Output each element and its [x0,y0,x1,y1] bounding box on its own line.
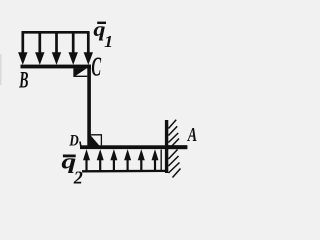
svg-text:A: A [187,124,197,146]
svg-text:1: 1 [104,31,113,51]
svg-text:B: B [18,68,28,93]
svg-text:D: D [68,133,79,150]
svg-text:2: 2 [73,167,83,187]
svg-text:C: C [91,52,101,82]
